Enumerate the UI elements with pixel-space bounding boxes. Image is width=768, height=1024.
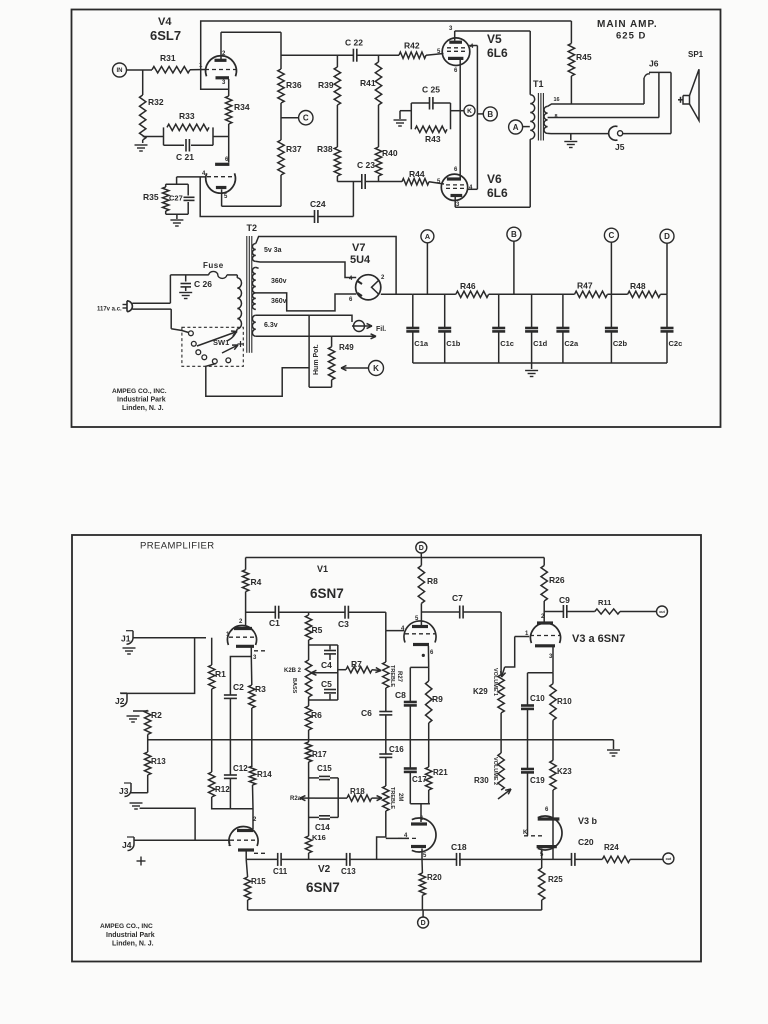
svg-text:C16: C16 [389, 745, 404, 754]
svg-text:V1: V1 [317, 564, 328, 574]
svg-text:A: A [513, 123, 519, 132]
svg-text:K: K [373, 364, 379, 373]
svg-text:K: K [467, 108, 472, 115]
svg-text:R12: R12 [215, 785, 230, 794]
svg-text:6: 6 [430, 650, 434, 656]
svg-text:R8: R8 [427, 576, 438, 586]
svg-text:4: 4 [469, 185, 473, 191]
svg-text:R26: R26 [549, 575, 565, 585]
svg-text:Fuse: Fuse [203, 261, 224, 270]
svg-text:R35: R35 [143, 192, 159, 202]
svg-text:R4: R4 [251, 577, 262, 587]
svg-text:C6: C6 [361, 708, 372, 718]
svg-text:C 21: C 21 [176, 152, 194, 162]
svg-text:V6: V6 [487, 172, 502, 186]
svg-text:117v a.c.: 117v a.c. [97, 307, 122, 313]
svg-text:R47: R47 [577, 281, 593, 291]
svg-text:R2a: R2a [290, 796, 302, 802]
svg-text:R20: R20 [427, 873, 442, 882]
svg-text:C19: C19 [530, 776, 545, 785]
svg-text:V4: V4 [158, 16, 172, 28]
svg-text:625 D: 625 D [616, 31, 646, 42]
svg-text:C1: C1 [269, 618, 280, 628]
svg-text:6: 6 [349, 297, 353, 303]
svg-text:J6: J6 [649, 59, 659, 69]
svg-text:C24: C24 [310, 199, 326, 209]
svg-text:R25: R25 [548, 875, 563, 884]
svg-text:5v 3a: 5v 3a [264, 247, 282, 254]
svg-text:A: A [425, 232, 431, 241]
svg-text:D: D [421, 920, 426, 927]
svg-text:TREBLE: TREBLE [389, 787, 395, 809]
svg-text:C10: C10 [530, 694, 545, 703]
svg-text:C2: C2 [233, 682, 244, 692]
svg-text:C 26: C 26 [194, 279, 212, 289]
svg-text:R7: R7 [351, 659, 362, 669]
svg-text:C13: C13 [341, 867, 356, 876]
svg-text:C5: C5 [321, 679, 332, 689]
svg-text:C1d: C1d [533, 339, 548, 348]
svg-text:IN: IN [117, 68, 123, 74]
svg-text:C1b: C1b [446, 339, 461, 348]
svg-text:C: C [303, 114, 309, 123]
svg-text:VOLUME 1: VOLUME 1 [492, 668, 498, 696]
svg-text:R21: R21 [433, 768, 448, 777]
svg-text:B: B [511, 230, 517, 239]
svg-text:3: 3 [253, 655, 257, 661]
svg-text:R1: R1 [215, 669, 226, 679]
svg-text:6: 6 [454, 68, 458, 74]
svg-text:D: D [664, 232, 670, 241]
svg-text:3: 3 [222, 80, 226, 86]
svg-text:C12: C12 [233, 764, 248, 773]
svg-text:J5: J5 [615, 142, 625, 152]
svg-text:C7: C7 [452, 593, 463, 603]
svg-text:Fil.: Fil. [376, 326, 386, 333]
svg-text:6.3v: 6.3v [264, 322, 278, 329]
svg-text:C18: C18 [451, 842, 467, 852]
svg-text:R33: R33 [179, 111, 195, 121]
svg-text:V3 b: V3 b [578, 816, 598, 826]
svg-text:V5: V5 [487, 32, 502, 46]
svg-text:R38: R38 [317, 144, 333, 154]
svg-text:C9: C9 [559, 595, 570, 605]
svg-text:T2: T2 [247, 223, 258, 233]
svg-text:Industrial Park: Industrial Park [117, 397, 166, 404]
svg-text:C14: C14 [315, 823, 330, 832]
svg-text:C15: C15 [317, 764, 332, 773]
svg-text:Linden, N. J.: Linden, N. J. [122, 405, 164, 412]
svg-text:3: 3 [449, 26, 453, 32]
svg-text:C 22: C 22 [345, 38, 363, 48]
svg-text:6L6: 6L6 [487, 46, 508, 60]
svg-text:C27: C27 [169, 194, 183, 203]
svg-text:J4: J4 [122, 840, 132, 850]
svg-text:C4: C4 [321, 660, 332, 670]
svg-text:R15: R15 [251, 877, 266, 886]
svg-text:R49: R49 [339, 343, 354, 352]
svg-text:R13: R13 [151, 757, 166, 766]
svg-text:J1: J1 [121, 634, 131, 644]
svg-text:J3: J3 [119, 786, 129, 796]
svg-text:R34: R34 [234, 102, 250, 112]
svg-text:6: 6 [545, 807, 549, 813]
svg-text:out: out [666, 857, 672, 861]
svg-text:V2: V2 [318, 864, 331, 875]
svg-text:Hum Pot.: Hum Pot. [313, 344, 320, 375]
svg-text:R43: R43 [425, 134, 441, 144]
svg-text:360v: 360v [271, 278, 287, 285]
svg-text:C1a: C1a [414, 339, 429, 348]
svg-text:360v: 360v [271, 298, 287, 305]
svg-text:Linden, N. J.: Linden, N. J. [112, 941, 154, 948]
svg-text:6: 6 [454, 167, 458, 173]
svg-text:R45: R45 [576, 52, 592, 62]
svg-text:R44: R44 [409, 169, 425, 179]
svg-text:R14: R14 [257, 770, 272, 779]
svg-text:K2B 2: K2B 2 [284, 668, 302, 674]
svg-text:J2: J2 [115, 696, 125, 706]
svg-text:R10: R10 [557, 697, 572, 706]
svg-text:SP1: SP1 [688, 50, 704, 59]
svg-text:6SN7: 6SN7 [306, 880, 340, 895]
svg-text:TREBLE: TREBLE [389, 665, 395, 687]
svg-text:R11: R11 [598, 598, 611, 607]
svg-text:C2b: C2b [613, 339, 628, 348]
svg-text:5U4: 5U4 [350, 254, 371, 266]
svg-text:C11: C11 [273, 867, 288, 876]
svg-text:out: out [659, 610, 665, 614]
svg-text:C1c: C1c [500, 339, 514, 348]
svg-text:R17: R17 [312, 750, 327, 759]
svg-text:K23: K23 [557, 767, 572, 776]
svg-text:2: 2 [253, 817, 257, 823]
svg-text:R2: R2 [151, 710, 162, 720]
svg-text:K29: K29 [473, 687, 488, 696]
svg-text:V7: V7 [352, 242, 365, 254]
svg-text:C20: C20 [578, 837, 594, 847]
svg-text:R27: R27 [396, 671, 402, 683]
svg-text:2: 2 [239, 619, 243, 625]
svg-text:R31: R31 [160, 53, 176, 63]
svg-text:R24: R24 [604, 843, 619, 852]
svg-text:SW1: SW1 [213, 338, 229, 347]
svg-text:R48: R48 [630, 281, 646, 291]
svg-text:R32: R32 [148, 97, 164, 107]
svg-text:T1: T1 [533, 79, 544, 89]
svg-text:Industrial Park: Industrial Park [106, 932, 155, 939]
svg-text:R42: R42 [404, 41, 420, 51]
svg-text:R30: R30 [474, 776, 489, 785]
svg-text:AMPEG CO., INC.: AMPEG CO., INC. [112, 388, 167, 395]
svg-text:R41: R41 [360, 78, 376, 88]
svg-text:D: D [419, 545, 424, 552]
svg-text:AMPEG CO., INC: AMPEG CO., INC [100, 923, 153, 930]
svg-text:BASS: BASS [291, 678, 297, 694]
svg-text:6SL7: 6SL7 [150, 28, 181, 43]
svg-text:2M: 2M [397, 793, 403, 801]
svg-text:VOLUME 2: VOLUME 2 [492, 757, 498, 785]
svg-text:C 23: C 23 [357, 160, 375, 170]
svg-text:6L6: 6L6 [487, 186, 508, 200]
svg-text:C8: C8 [395, 690, 406, 700]
svg-text:R46: R46 [460, 281, 476, 291]
svg-text:R39: R39 [318, 80, 334, 90]
svg-text:16: 16 [554, 97, 560, 103]
svg-text:C2c: C2c [669, 339, 683, 348]
svg-text:1: 1 [228, 842, 232, 848]
svg-text:V3 a 6SN7: V3 a 6SN7 [572, 633, 625, 645]
svg-text:R37: R37 [286, 144, 302, 154]
svg-text:R18: R18 [350, 787, 365, 796]
svg-text:6SN7: 6SN7 [310, 586, 344, 601]
svg-text:C 25: C 25 [422, 85, 440, 95]
svg-text:R36: R36 [286, 80, 302, 90]
svg-text:R3: R3 [255, 684, 266, 694]
svg-text:R6: R6 [311, 710, 322, 720]
svg-text:R5: R5 [312, 625, 323, 635]
svg-text:K: K [523, 830, 528, 836]
svg-text:C3: C3 [338, 619, 349, 629]
svg-text:R40: R40 [382, 148, 398, 158]
svg-text:C2a: C2a [564, 339, 579, 348]
svg-text:5: 5 [423, 853, 427, 859]
svg-text:B: B [487, 110, 493, 119]
svg-text:C: C [609, 231, 615, 240]
svg-text:5: 5 [224, 194, 228, 200]
svg-text:R9: R9 [432, 694, 443, 704]
svg-text:2: 2 [381, 275, 385, 281]
svg-text:PREAMPLIFIER: PREAMPLIFIER [140, 541, 214, 552]
svg-text:K16: K16 [312, 833, 326, 842]
svg-text:MAIN AMP.: MAIN AMP. [597, 19, 658, 30]
